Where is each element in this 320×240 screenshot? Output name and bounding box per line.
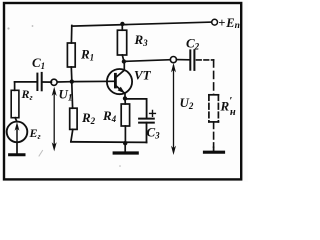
capacitor C2 <box>190 50 194 70</box>
resistor Rg (generator) <box>11 82 19 122</box>
wire: output node to C2 <box>177 59 190 61</box>
wire: base lead <box>74 80 115 82</box>
wire: dashed load column <box>213 60 215 95</box>
transistor VT <box>107 63 132 99</box>
wire: load to ground <box>213 147 215 151</box>
node: ground junction dot <box>123 141 127 145</box>
wire: C3 to bottom rail <box>146 123 148 143</box>
node: input open circle <box>51 79 57 85</box>
wire: R1 column top <box>70 26 72 44</box>
wire: input to C1 <box>15 81 37 83</box>
wire: C1 to input node <box>43 81 52 83</box>
wire: Eg to ground <box>16 142 18 153</box>
svg-text:н: н <box>230 107 236 118</box>
label Rn' <box>220 95 236 118</box>
resistor R4 <box>121 98 129 141</box>
svg-text:′: ′ <box>229 95 232 107</box>
node: rail junction dot <box>120 22 124 26</box>
svg-text:R: R <box>220 99 230 114</box>
terminal +Ep <box>212 19 218 25</box>
resistor Rn' (load, dashed) <box>209 95 219 122</box>
wire: +Ep supply rail <box>72 22 212 26</box>
svg-text:VT: VT <box>134 68 152 83</box>
wire: dashed C2 to load <box>197 59 214 61</box>
source Eg <box>7 122 28 143</box>
label +Ep <box>218 16 240 31</box>
ground (input) <box>10 153 24 156</box>
ground (load) <box>205 151 224 154</box>
wire: node to base junction <box>58 81 70 83</box>
node: output open circle <box>170 57 176 63</box>
resistor R2 <box>70 83 77 142</box>
resistor R3 <box>117 24 126 61</box>
node: collector junction dot <box>122 59 126 63</box>
arrow U1 <box>52 87 57 152</box>
wire: collector output line <box>124 60 170 62</box>
svg-text:п: п <box>235 21 240 31</box>
wire: bottom emitter rail <box>71 141 147 144</box>
label + of C3 <box>150 111 156 117</box>
wire: dashed below load <box>213 122 215 147</box>
node: emitter junction dot <box>123 96 127 100</box>
capacitor C1 <box>37 73 41 90</box>
wire: emitter to C3 <box>126 99 147 118</box>
wire: junction to ground <box>124 143 126 151</box>
arrow U2 <box>171 63 176 155</box>
capacitor C3 (electrolytic) <box>139 119 154 123</box>
wire: R1 bottom to base node <box>70 67 73 80</box>
svg-text:+: + <box>218 16 225 30</box>
node: base junction dot <box>70 79 74 83</box>
ground (emitter) <box>114 151 137 154</box>
svg-text:E: E <box>225 16 234 30</box>
resistor R1 <box>67 43 75 67</box>
